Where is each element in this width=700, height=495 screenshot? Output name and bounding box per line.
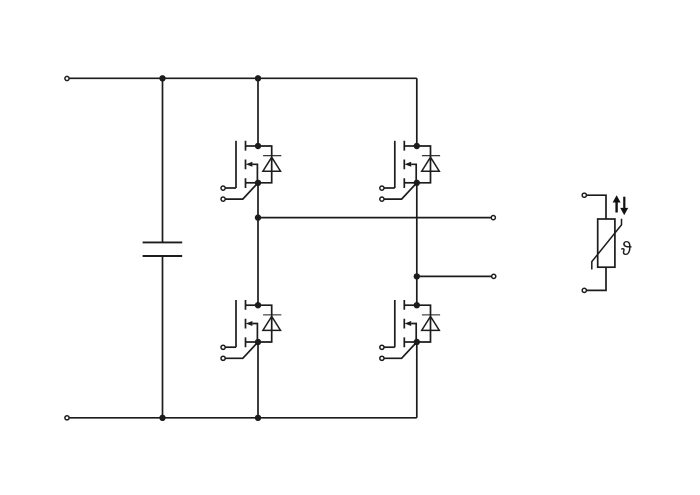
wire capacitor branch upper	[162, 78, 164, 242]
wire thermistor top lead	[586, 195, 606, 219]
node bottom rail / capacitor	[159, 415, 165, 421]
node bottom rail / left leg	[255, 415, 261, 421]
wire right leg middle	[416, 183, 418, 305]
transistor Q1 (top-left MOSFET)	[221, 141, 258, 201]
diode D2 (freewheeling, top-right)	[414, 143, 441, 186]
node top rail / capacitor	[159, 75, 165, 81]
node phase 1	[255, 214, 261, 220]
wire left leg upper	[257, 78, 259, 146]
wire phase output 2	[417, 275, 491, 277]
node phase 2	[414, 273, 420, 279]
terminal thermistor bottom	[582, 288, 586, 292]
arrow down (temperature)	[620, 197, 628, 215]
wire thermistor bottom lead	[586, 267, 606, 290]
capacitor C1	[143, 242, 183, 256]
terminal AC2	[492, 274, 496, 278]
wire left leg lower	[257, 342, 259, 418]
thermistor R1 diagonal stroke	[592, 219, 622, 270]
thermistor R1 (NTC) body	[598, 219, 615, 267]
transistor Q4 (bottom-right MOSFET)	[380, 300, 417, 360]
diode D3 (freewheeling, bottom-left)	[255, 302, 281, 345]
wire bottom DC- rail	[67, 417, 417, 419]
diode D4 (freewheeling, bottom-right)	[414, 302, 441, 345]
wire phase output 1	[258, 217, 491, 219]
svg-text:ϑ: ϑ	[621, 238, 632, 260]
node top rail / left leg	[255, 75, 261, 81]
arrow up (temperature)	[613, 195, 621, 212]
terminal thermistor top	[582, 193, 586, 197]
wire left leg middle	[257, 183, 259, 305]
transistor Q2 (top-right MOSFET)	[380, 141, 417, 201]
diode D1 (freewheeling, top-left)	[255, 143, 281, 186]
wire capacitor branch lower	[162, 256, 164, 418]
terminal DC+	[65, 76, 69, 80]
transistor Q3 (bottom-left MOSFET)	[221, 300, 258, 360]
wire right leg upper	[416, 78, 418, 146]
terminal AC1	[491, 216, 495, 220]
terminal DC-	[65, 416, 69, 420]
wire top DC+ rail	[67, 77, 417, 79]
wire right leg lower	[416, 342, 418, 418]
